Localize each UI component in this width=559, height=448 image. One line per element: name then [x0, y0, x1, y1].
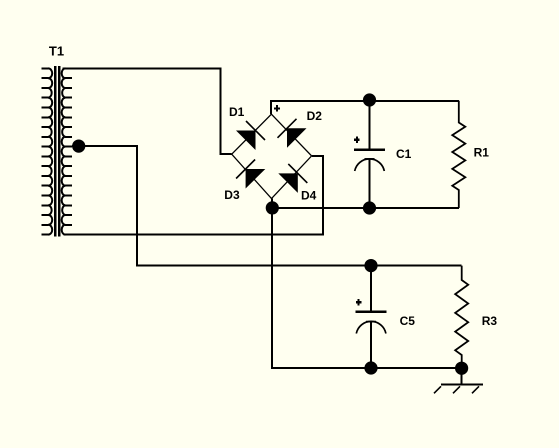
svg-text:C1: C1: [396, 147, 412, 161]
svg-text:R1: R1: [474, 146, 490, 160]
svg-text:T1: T1: [49, 44, 64, 59]
svg-text:D2: D2: [307, 109, 323, 123]
svg-text:D1: D1: [229, 105, 245, 119]
svg-text:D4: D4: [301, 189, 317, 203]
svg-text:R3: R3: [482, 314, 498, 328]
svg-text:D3: D3: [224, 188, 240, 202]
svg-text:C5: C5: [400, 314, 416, 328]
